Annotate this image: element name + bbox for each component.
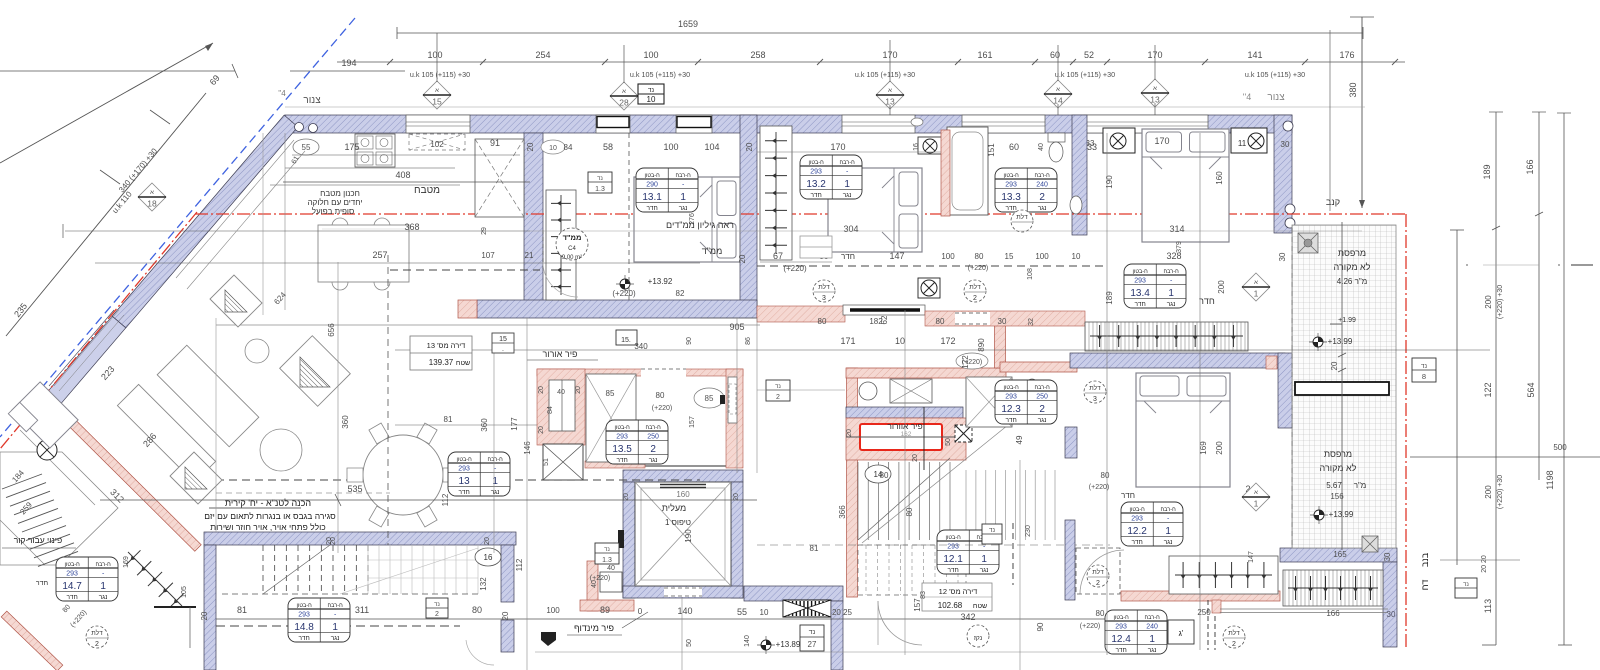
svg-text:1: 1: [844, 179, 850, 190]
black arrow entry: [541, 632, 556, 646]
svg-text:1198: 1198: [1545, 470, 1555, 489]
vline x757 corridor: [756, 318, 758, 473]
hline y425 hall: [395, 424, 537, 426]
shower 12.3: [966, 377, 1012, 427]
svg-text:נגר: נגר: [1038, 417, 1047, 424]
svg-text:1: 1: [332, 622, 338, 633]
door circle SW: [86, 626, 108, 648]
svg-text:נד: נד: [597, 176, 603, 182]
svg-text:293: 293: [1005, 393, 1017, 400]
vline x338 living: [337, 262, 339, 553]
level mark +13.99 b: [1310, 514, 1328, 516]
svg-text:55: 55: [302, 143, 311, 152]
svg-text:30: 30: [1387, 610, 1396, 619]
bed bedroom 13.1: [634, 177, 740, 262]
svg-text:151: 151: [987, 143, 996, 157]
hline y493 left: [216, 492, 390, 494]
svg-text:160: 160: [1215, 171, 1224, 185]
svg-text:535: 535: [347, 484, 362, 494]
svg-text:חדר: חדר: [36, 580, 49, 587]
svg-text:90: 90: [1036, 622, 1045, 631]
svg-text:12.1: 12.1: [943, 554, 963, 565]
svg-text:(+220): (+220): [652, 405, 672, 412]
schedule 14.7: [56, 557, 118, 601]
svg-text:חדר: חדר: [810, 192, 821, 199]
svg-text:חדר: חדר: [1121, 491, 1135, 500]
svg-text:20: 20: [484, 537, 491, 545]
svg-text:293: 293: [810, 168, 822, 175]
svg-text:100: 100: [663, 142, 678, 152]
svg-text:80: 80: [656, 391, 665, 400]
bedroom2 corner furniture: [800, 236, 832, 258]
wall: NW diagonal wall: [112, 115, 298, 328]
hline y545 center: [757, 544, 1110, 546]
svg-text:ג': ג': [1179, 629, 1184, 638]
svg-text:13.4: 13.4: [1130, 288, 1150, 299]
svg-text:161: 161: [977, 50, 992, 60]
svg-text:נד: נד: [648, 87, 655, 94]
svg-text:(+220) +30: (+220) +30: [1497, 475, 1504, 509]
svg-text:1.3: 1.3: [595, 186, 605, 193]
armchair 3: [170, 452, 222, 504]
svg-text:דלת: דלת: [1016, 213, 1028, 221]
svg-text:ח-בטון: ח-בטון: [1004, 385, 1020, 391]
svg-text:67: 67: [773, 251, 783, 261]
svg-text:342: 342: [960, 612, 975, 622]
svg-text:ח-בטון: ח-בטון: [809, 160, 825, 166]
circx box corridor: [918, 278, 940, 298]
svg-text:29: 29: [481, 227, 488, 235]
vline x905: [904, 310, 906, 368]
svg-text:נד: נד: [1463, 582, 1469, 588]
diamond G1: [1242, 273, 1270, 301]
svg-text:20: 20: [912, 454, 919, 462]
svg-text:+13.99: +13.99: [1329, 510, 1354, 519]
svg-text:1: 1: [1165, 526, 1171, 537]
svg-text:ח-רבח: ח-רבח: [646, 425, 662, 431]
svg-text:נגר: נגר: [1164, 539, 1173, 546]
svg-text:ח-רבח: ח-רבח: [96, 562, 112, 568]
svg-text:60: 60: [1009, 142, 1019, 152]
coffee table rotated: [157, 345, 259, 447]
svg-text:290: 290: [646, 181, 658, 188]
svg-text:80: 80: [880, 471, 889, 480]
wall: family room left band: [204, 545, 216, 670]
wall: bath12.3 right lavender: [1065, 427, 1077, 458]
schedule bottom right partial: [1105, 610, 1167, 654]
svg-text:100: 100: [941, 252, 955, 261]
svg-text:C4: C4: [568, 246, 576, 252]
wall: family room right band upper: [501, 545, 514, 602]
svg-text:293: 293: [1005, 181, 1017, 188]
right dim horizontal y560 small: [1440, 559, 1520, 561]
svg-text:100: 100: [427, 50, 442, 60]
svg-text:240: 240: [1036, 181, 1048, 188]
wall: bedroom-block bottom band: [477, 300, 757, 318]
diamond 18: [138, 183, 166, 211]
diamond 14: [1044, 80, 1072, 108]
svg-text:ח-בטון: ח-בטון: [457, 457, 473, 463]
circx bedroom2 vent box: [918, 137, 942, 154]
wall: NW diagonal window band: [47, 316, 126, 404]
stair treads lower flight: [965, 470, 967, 540]
schedule 12.2: [1121, 502, 1183, 546]
tall cabinet with X: [475, 139, 524, 217]
svg-text:20: 20: [738, 254, 747, 263]
svg-text:293: 293: [66, 570, 78, 577]
bedroom2 desk lines: [760, 261, 832, 263]
diamond 28: [610, 82, 638, 110]
long line y350: [395, 349, 1490, 351]
svg-text:הכנה לטנ"א - יח' קירית: הכנה לטנ"א - יח' קירית: [225, 498, 311, 508]
svg-text:190: 190: [684, 529, 693, 543]
family room dashed lower: [222, 593, 478, 595]
svg-text:293: 293: [458, 465, 470, 472]
svg-text:91: 91: [490, 138, 500, 148]
svg-text:1: 1: [1168, 288, 1174, 299]
svg-text:פיר אורור: פיר אורור: [542, 349, 577, 359]
svg-text:85: 85: [705, 394, 714, 403]
box 15 mid: [616, 330, 637, 345]
kitchen window dashed cabinet: [409, 134, 465, 150]
svg-text:חכנון מטבח: חכנון מטבח: [320, 189, 360, 198]
svg-text:ממ"ד: ממ"ד: [563, 233, 582, 242]
svg-text:293: 293: [1115, 623, 1127, 630]
svg-text:360: 360: [341, 415, 350, 429]
neighbor wardrobe hangers diagonal: [128, 552, 182, 606]
pink sliver right of bedroom4 top band: [1266, 356, 1277, 369]
svg-text:293: 293: [616, 433, 628, 440]
neighbor circx: [37, 440, 57, 460]
dashed vertical x1013: [1012, 523, 1014, 585]
right dim vertical x1496: [1495, 112, 1497, 645]
red dash-dot boundary vertical: [1405, 214, 1407, 648]
svg-text:נד: נד: [434, 602, 440, 608]
svg-text:107: 107: [481, 251, 495, 260]
hline y155: [292, 154, 520, 156]
wardrobe bedroom4: [1169, 556, 1278, 594]
svg-text:169: 169: [123, 556, 130, 568]
svg-text:15.: 15.: [621, 337, 631, 344]
svg-text:175: 175: [344, 142, 359, 152]
wall: pink segment left of bottom band: [458, 300, 477, 318]
svg-text:30: 30: [1281, 140, 1290, 149]
svg-text:81: 81: [810, 544, 819, 553]
vline x905 extend: [904, 368, 906, 655]
door circle corridor 3: [813, 280, 835, 302]
svg-text:33: 33: [1087, 142, 1097, 152]
windows in top wall: [406, 115, 470, 133]
svg-text:20: 20: [745, 142, 754, 151]
sink 12.3: [1043, 406, 1057, 424]
box nd 1.3 b: [595, 543, 619, 564]
wall: bedroom4 top band: [1070, 353, 1285, 368]
mirror strip right: [728, 377, 737, 423]
svg-text:ח-רבח: ח-רבח: [488, 457, 504, 463]
svg-text:יחדים עם חלוקה: יחדים עם חלוקה: [308, 198, 363, 207]
wall: pink L left of elevator: [587, 561, 598, 611]
svg-text:דלת: דלת: [818, 283, 830, 291]
dim line 1659: [397, 32, 1363, 34]
tick marks on hline y231: [62, 224, 64, 238]
door arc kitchen hall: [543, 262, 578, 297]
svg-text:170: 170: [1154, 136, 1169, 146]
svg-text:13.1: 13.1: [642, 192, 662, 203]
svg-text:500: 500: [1553, 443, 1567, 452]
balcony left edge dashed: [1291, 228, 1293, 380]
svg-text:u.k 105 (+115) +30: u.k 105 (+115) +30: [630, 70, 690, 79]
dim שירותים 13 note: [410, 336, 472, 370]
svg-text:א: א: [888, 88, 892, 94]
svg-text:דירה מס' 12: דירה מס' 12: [939, 587, 978, 596]
mamad label circle: [556, 228, 588, 260]
svg-text:250: 250: [1036, 393, 1048, 400]
svg-text:10: 10: [647, 95, 656, 104]
wall: pink steps right of stair top: [995, 321, 1006, 368]
svg-text:368: 368: [404, 222, 419, 232]
door arc bedroom4 entry: [1080, 550, 1124, 594]
svg-text:200: 200: [1215, 441, 1224, 455]
vline x216: [215, 318, 217, 532]
svg-text:194: 194: [341, 58, 356, 68]
dashed line vertical x388: [387, 255, 389, 545]
right dim vertical x1457: [1456, 230, 1458, 565]
svg-text:ח-רבח: ח-רבח: [328, 603, 344, 609]
svg-text:166: 166: [1326, 609, 1340, 618]
ellipse 85 b: [694, 388, 724, 408]
black door marker left of elevator: [618, 530, 624, 548]
svg-text:20: 20: [526, 142, 535, 151]
svg-text:171: 171: [840, 336, 855, 346]
svg-text:328: 328: [1166, 251, 1181, 261]
wall: pink stairwell top band: [846, 368, 1006, 378]
diamond 13b: [1141, 79, 1169, 107]
svg-text:132: 132: [479, 577, 488, 591]
svg-text:140: 140: [677, 606, 692, 616]
svg-text:''4: ''4: [1243, 92, 1251, 102]
vent boxes in top wall over bedroom block: [596, 115, 630, 133]
svg-text:170: 170: [830, 142, 845, 152]
svg-text:''4: ''4: [278, 89, 286, 98]
svg-text:311: 311: [355, 605, 369, 615]
svg-text:52: 52: [1084, 50, 1094, 60]
svg-text:20: 20: [846, 429, 853, 437]
long line y325: [216, 324, 760, 326]
svg-text:1659: 1659: [678, 19, 698, 29]
right dim vertical x1565: [1563, 113, 1565, 645]
vline x1200: [1199, 133, 1201, 650]
svg-text:א: א: [622, 89, 626, 95]
svg-text:נגר: נגר: [1167, 301, 1176, 308]
vline x1342 balcony dim: [1341, 222, 1343, 550]
schedule 13.2: [800, 155, 862, 199]
svg-text:84: 84: [564, 143, 573, 152]
blue dashed boundary: [0, 18, 355, 437]
svg-text:מטבח: מטבח: [414, 185, 440, 196]
svg-text:0: 0: [638, 607, 643, 616]
svg-text:נגר: נגר: [649, 457, 658, 464]
schedule 13.3: [995, 168, 1057, 212]
svg-text:1: 1: [100, 581, 106, 592]
right dim vertical x1539: [1538, 112, 1540, 480]
box nd 2: [426, 598, 448, 618]
svg-text:20: 20: [326, 537, 333, 545]
svg-text:נגר: נגר: [980, 567, 989, 574]
svg-text:נד: נד: [809, 629, 816, 636]
door circle 12.3: [1084, 381, 1106, 403]
svg-text:מעלית: מעלית: [662, 503, 686, 513]
svg-text:צנור: צנור: [303, 95, 321, 106]
svg-text:לא מקורה: לא מקורה: [1334, 262, 1371, 272]
balcony divider bar: [1295, 382, 1389, 395]
wall: family room top band: [204, 532, 516, 545]
svg-text:30: 30: [1383, 552, 1392, 561]
svg-text:108: 108: [1027, 268, 1034, 280]
svg-text:147: 147: [1248, 551, 1255, 563]
bed bedroom 13.4: [1142, 129, 1229, 242]
svg-text:20: 20: [200, 611, 209, 620]
svg-text:380: 380: [1348, 82, 1358, 97]
svg-text:מ"ר: מ"ר: [1354, 481, 1367, 490]
wall: band right of elevator bottom: [744, 586, 843, 601]
svg-text:טיפוס 1: טיפוס 1: [665, 518, 691, 527]
svg-text:קנב: קנב: [1326, 197, 1340, 207]
wall: pink stairwell left band: [847, 368, 858, 597]
svg-text:חדר: חדר: [1199, 296, 1215, 306]
svg-text:(+220): (+220): [1089, 484, 1109, 491]
svg-text:2: 2: [1039, 404, 1045, 415]
svg-text:ח-רבח: ח-רבח: [1035, 385, 1051, 391]
svg-text:ח-רבח: ח-רבח: [840, 160, 856, 166]
nd 8 box right: [1412, 358, 1436, 382]
diamond leader lines: [889, 105, 891, 115]
svg-text:1: 1: [1254, 289, 1259, 299]
svg-text:105: 105: [181, 586, 188, 598]
right dim horizontal y457: [1410, 456, 1600, 458]
box nd above schedule 12.1: [982, 524, 1002, 544]
svg-text:40: 40: [607, 565, 615, 572]
vline x737: [736, 318, 738, 473]
svg-text:14.7: 14.7: [62, 581, 82, 592]
svg-text:2: 2: [1232, 641, 1236, 648]
svg-text:122: 122: [1483, 382, 1493, 397]
bedroom2 wardrobe hangers: [760, 126, 792, 260]
svg-text:80: 80: [818, 317, 827, 326]
svg-text:293: 293: [1131, 515, 1143, 522]
vline x527: [526, 318, 528, 670]
svg-text:לא מקורה: לא מקורה: [1320, 463, 1357, 473]
svg-text:ח-בטון: ח-בטון: [1133, 269, 1149, 275]
door posts dashed: [1207, 600, 1209, 650]
box nd mid left: [492, 333, 514, 353]
kitchen stove burners: [355, 134, 395, 167]
svg-text:2: 2: [973, 295, 977, 302]
svg-text:+1.99: +1.99: [1338, 317, 1356, 324]
round dining table: [363, 435, 443, 515]
svg-text:u.k 105 (+115) +30: u.k 105 (+115) +30: [410, 70, 470, 79]
svg-text:(+220): (+220): [590, 575, 610, 582]
svg-text:ראה גיליון ממ"דים: ראה גיליון ממ"דים: [666, 220, 734, 230]
svg-text:ח-בטון: ח-בטון: [1130, 507, 1146, 513]
box 11 circx top-right: [1231, 128, 1267, 153]
svg-text:15: 15: [1005, 252, 1014, 261]
svg-text:u.k 105 (+115) +30: u.k 105 (+115) +30: [855, 70, 915, 79]
wardrobe bottom right: [1283, 570, 1383, 606]
svg-text:דלת: דלת: [1228, 629, 1240, 637]
svg-text:230: 230: [1025, 525, 1032, 537]
door gap bath13.5 top: [641, 368, 686, 377]
svg-text:100: 100: [546, 606, 560, 615]
svg-text:176: 176: [1339, 50, 1354, 60]
svg-text:113: 113: [1483, 599, 1493, 613]
vline x490 living: [493, 352, 495, 553]
door arc corridor bottom: [878, 601, 922, 645]
wall: pink room around air shaft: [846, 418, 966, 460]
site boundary line 235: [6, 93, 206, 336]
wall: top exterior band: [285, 115, 1292, 133]
dark lintel line above elevator: [587, 465, 740, 467]
shower 13.5: [586, 374, 636, 462]
balcony drain top: [1298, 233, 1318, 253]
svg-text:דירה מס' 13: דירה מס' 13: [427, 341, 466, 350]
vline x1020: [1019, 460, 1021, 670]
svg-text:122: 122: [961, 355, 970, 369]
svg-text:9.00 m²: 9.00 m²: [562, 255, 582, 261]
svg-text:א: א: [1056, 87, 1060, 93]
sofa band along wall: [117, 384, 215, 482]
svg-text:50: 50: [686, 639, 693, 647]
kitchen counter along diagonal wall: [176, 140, 294, 278]
svg-text:10: 10: [760, 608, 769, 617]
svg-text:ח-רבח: ח-רבח: [1161, 507, 1177, 513]
svg-text:u.k 105 (+115) +30: u.k 105 (+115) +30: [1245, 70, 1305, 79]
stair diagonal break: [858, 458, 950, 540]
svg-text:250: 250: [1197, 608, 1211, 617]
svg-text:60: 60: [1050, 50, 1060, 60]
door gap dashed in pink band: [955, 312, 990, 325]
hline y390 center: [757, 389, 845, 391]
svg-text:104: 104: [704, 142, 719, 152]
svg-text:157: 157: [689, 416, 696, 428]
hline y231: [65, 230, 530, 232]
ellipse 16: [475, 548, 501, 566]
svg-text:11: 11: [1238, 139, 1247, 148]
svg-text:חדר: חדר: [1005, 417, 1016, 424]
svg-text:חדר: חדר: [66, 594, 77, 601]
svg-text:ח-בטון: ח-בטון: [615, 425, 631, 431]
svg-text:169: 169: [1199, 441, 1208, 455]
closet 40/84 box: [549, 380, 575, 431]
svg-text:85: 85: [606, 389, 615, 398]
vertical dim x1362: [1361, 17, 1363, 208]
svg-text:30: 30: [1278, 252, 1287, 261]
door circle corridor 2: [964, 280, 986, 302]
duct X box right of shaft: [955, 425, 972, 442]
island stools: [332, 274, 348, 290]
svg-text:נד: נד: [1421, 363, 1428, 370]
svg-text:u.k 105 (+115) +30: u.k 105 (+115) +30: [1055, 70, 1115, 79]
neighbor stair treads: [2, 474, 42, 489]
svg-text:פיר מינדוף: פיר מינדוף: [574, 623, 614, 633]
dim line y152 bedroom2: [757, 151, 941, 153]
svg-text:דלת: דלת: [91, 629, 103, 637]
wall: right edge band segment: [1278, 353, 1294, 428]
bath13.5 pink walls: [537, 369, 743, 376]
apartment 12 box: [922, 583, 992, 611]
corridor bottom pink band left: [757, 306, 845, 322]
bed bedroom 13.2: [828, 168, 922, 252]
svg-text:2: 2: [776, 394, 780, 401]
